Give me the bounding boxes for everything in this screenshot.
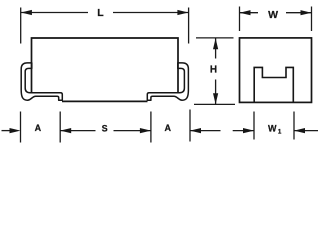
svg-text:W: W [268, 124, 277, 134]
svg-text:W: W [268, 9, 278, 21]
svg-text:H: H [210, 64, 217, 75]
svg-text:S: S [102, 123, 108, 133]
svg-text:A: A [165, 123, 172, 133]
svg-text:1: 1 [278, 129, 282, 136]
svg-text:A: A [35, 123, 42, 133]
svg-text:L: L [97, 7, 104, 19]
